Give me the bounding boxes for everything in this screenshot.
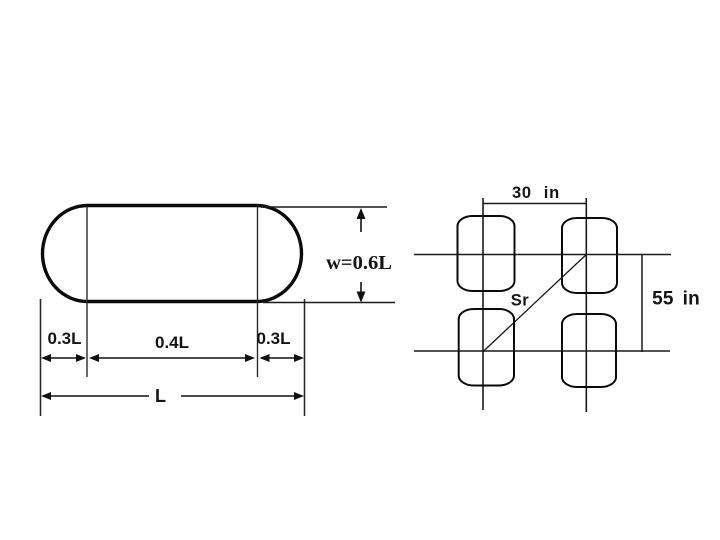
svg-text:0.3L: 0.3L (256, 329, 290, 348)
svg-text:0.3L: 0.3L (47, 329, 81, 348)
svg-text:Sr: Sr (511, 292, 530, 310)
svg-text:55 in: 55 in (652, 289, 700, 310)
svg-text:L: L (155, 386, 166, 406)
svg-text:w=0.6L: w=0.6L (326, 252, 392, 274)
svg-text:0.4L: 0.4L (155, 333, 189, 352)
svg-text:30 in: 30 in (512, 184, 560, 202)
